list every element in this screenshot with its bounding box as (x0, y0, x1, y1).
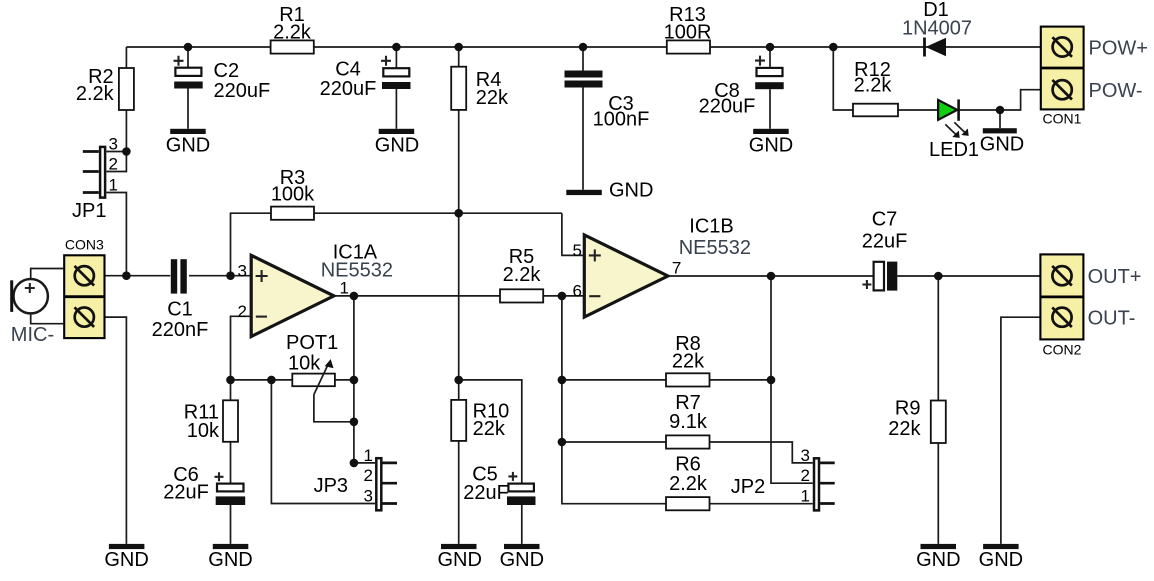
terminal block CON3 (64, 237, 104, 339)
svg-text:C1: C1 (167, 299, 193, 321)
resistor R13 (664, 4, 712, 54)
svg-text:220uF: 220uF (214, 80, 271, 102)
wire R2 top drop (125, 47, 127, 68)
svg-text:2.2k: 2.2k (854, 75, 893, 97)
svg-text:1: 1 (801, 487, 810, 506)
wire R4 column (458, 47, 460, 544)
ground LED1 (980, 128, 1024, 155)
svg-text:22k: 22k (672, 351, 705, 373)
svg-text:3: 3 (801, 446, 810, 465)
svg-text:100nF: 100nF (593, 109, 650, 131)
wire output node down to JP2 pin2 (771, 276, 813, 483)
wire pin6 column to R6 (562, 296, 666, 504)
resistor R10 (451, 400, 509, 441)
wire R9 column (937, 276, 939, 544)
wire output column down to JP3 (353, 296, 355, 463)
svg-text:2: 2 (364, 466, 373, 485)
node R2 JP1 (122, 147, 131, 156)
svg-text:220nF: 220nF (152, 319, 209, 341)
svg-text:7: 7 (672, 259, 681, 278)
svg-text:100R: 100R (664, 22, 712, 44)
svg-text:2: 2 (238, 302, 247, 321)
resistor R1 (271, 4, 314, 54)
svg-text:2.2k: 2.2k (76, 83, 115, 105)
wire R11 column (230, 380, 232, 544)
node mic input (122, 271, 131, 280)
wire POT1 right to output column (335, 379, 354, 381)
capacitor C5 (463, 464, 535, 506)
svg-text:22k: 22k (888, 418, 921, 440)
node rail C8 (766, 43, 775, 52)
resistor R2 (76, 66, 134, 110)
node rail R12 (829, 43, 838, 52)
svg-text:GND: GND (166, 135, 210, 157)
capacitor C1 (152, 259, 209, 341)
header JP2 (731, 446, 835, 511)
node JP3 pin1 (350, 459, 359, 468)
wire R6 to JP2 pin1 (710, 503, 813, 505)
op-amp IC1A (238, 242, 393, 337)
capacitor C3 (565, 71, 650, 131)
wire LED1 to CON1 POW- (959, 90, 1052, 110)
wire R7 row to JP2 pin3 (562, 442, 813, 463)
wire R8 row (562, 379, 771, 381)
node IC1A pin3 (226, 271, 235, 280)
node POT1 right (350, 376, 359, 385)
microphone MIC (11, 279, 54, 346)
header JP1 (72, 135, 118, 223)
svg-text:2.2k: 2.2k (669, 473, 708, 495)
terminal block CON1 (1041, 27, 1148, 127)
svg-text:C7: C7 (872, 209, 898, 231)
node pin2 R11 (226, 376, 235, 385)
svg-text:3: 3 (109, 135, 118, 154)
resistor R11 (184, 400, 238, 442)
wire CON2 OUT- to GND (1001, 317, 1052, 544)
svg-text:GND: GND (609, 180, 653, 202)
wire R12 to LED1 (898, 109, 938, 111)
svg-text:CON1: CON1 (1043, 111, 1082, 127)
svg-text:100k: 100k (271, 184, 315, 206)
svg-text:22uF: 22uF (463, 482, 509, 504)
capacitor C7 (862, 209, 908, 291)
svg-text:R9: R9 (895, 398, 921, 420)
node wiper return (350, 418, 359, 427)
resistor R7 (666, 392, 710, 449)
wire C5 branch (459, 380, 522, 544)
wire pin2 node to POT1 (231, 379, 293, 381)
node LED gnd (996, 106, 1005, 115)
ground C5 (500, 544, 544, 571)
wire C8 stem (769, 47, 771, 129)
node IC1A output (350, 292, 359, 301)
ground R10 (437, 544, 481, 571)
wire R12 branch from rail (833, 47, 853, 110)
wire top supply rail (126, 46, 1051, 48)
svg-text:10k: 10k (288, 353, 321, 375)
wire JP1 pin1 to mic node (106, 193, 126, 276)
svg-text:GND: GND (104, 549, 148, 571)
wire JP1 pin3 (106, 151, 126, 153)
wire CON3 top to C1 (94, 275, 170, 277)
node R8 left (558, 376, 567, 385)
wire R3 bias path (231, 213, 585, 276)
svg-text:NE5532: NE5532 (321, 260, 393, 282)
svg-text:CON3: CON3 (65, 237, 104, 253)
node R3 R4 bias (454, 209, 463, 218)
ground C4 (375, 129, 419, 157)
svg-text:5: 5 (573, 241, 582, 260)
svg-text:JP1: JP1 (72, 200, 106, 222)
svg-text:GND: GND (208, 549, 252, 571)
svg-text:GND: GND (916, 549, 960, 571)
svg-text:CON2: CON2 (1043, 342, 1082, 358)
resistor R8 (666, 333, 710, 387)
resistor R5 (500, 246, 543, 303)
svg-text:22uF: 22uF (163, 482, 209, 504)
svg-text:POW+: POW+ (1089, 38, 1148, 60)
LED LED1 (929, 99, 979, 161)
node R10 C5 (454, 376, 463, 385)
terminal block CON2 (1040, 254, 1141, 357)
node JP3 pin3 branch (267, 376, 276, 385)
wire R2 bottom to JP1 node (125, 110, 127, 152)
resistor R9 (888, 398, 946, 444)
svg-text:1N4007: 1N4007 (902, 18, 972, 40)
wire POT1 wiper return (314, 395, 354, 422)
capacitor C4 (320, 56, 411, 100)
svg-text:JP3: JP3 (314, 475, 348, 497)
svg-text:POW-: POW- (1089, 80, 1143, 102)
svg-text:220uF: 220uF (320, 78, 377, 100)
svg-text:LED1: LED1 (929, 139, 979, 161)
wire IC1A pin2 (231, 316, 252, 380)
ground OUT- (979, 544, 1023, 571)
ground C8 (749, 129, 793, 157)
svg-text:IC1B: IC1B (689, 216, 733, 238)
node C7 R9 (934, 272, 943, 281)
svg-text:22k: 22k (473, 418, 506, 440)
svg-text:3: 3 (364, 487, 373, 506)
svg-text:22uF: 22uF (862, 231, 908, 253)
svg-text:GND: GND (500, 549, 544, 571)
svg-text:OUT+: OUT+ (1088, 266, 1142, 288)
svg-text:10k: 10k (187, 420, 220, 442)
svg-text:C2: C2 (214, 60, 240, 82)
wire mic to CON3 (31, 269, 64, 324)
svg-text:2.2k: 2.2k (273, 22, 312, 44)
resistor R3 (271, 167, 315, 220)
header JP3 (314, 446, 397, 510)
node rail R4 (454, 43, 463, 52)
ground R9 (916, 544, 960, 571)
wire C4 stem (395, 47, 397, 129)
svg-text:2.2k: 2.2k (503, 264, 542, 286)
ground C2 (166, 129, 210, 157)
wire R5 to IC1B pin6 (543, 295, 584, 297)
diode D1 (902, 0, 972, 57)
svg-text:6: 6 (573, 282, 582, 301)
resistor R12 (853, 59, 898, 116)
svg-text:POT1: POT1 (286, 332, 338, 354)
svg-text:2: 2 (801, 466, 810, 485)
node R7 left (558, 438, 567, 447)
svg-text:GND: GND (375, 135, 419, 157)
wire IC1B output to C7 (668, 275, 874, 277)
node rail C4 (392, 43, 401, 52)
svg-text:220uF: 220uF (699, 96, 756, 118)
wire JP3 pin3 loop (271, 380, 375, 504)
svg-text:JP2: JP2 (731, 476, 765, 498)
potentiometer POT1 (286, 332, 338, 395)
capacitor C2 (174, 56, 271, 102)
wire C3 stem (582, 47, 584, 190)
wire C7 to CON2 OUT+ (897, 275, 1051, 277)
resistor R4 (451, 67, 509, 110)
wire LED gnd stub (999, 110, 1001, 128)
wire IC1A output to R5 (334, 295, 500, 297)
ground CON3 (104, 544, 148, 571)
svg-text:GND: GND (749, 135, 793, 157)
wire CON3 bottom to GND (94, 317, 127, 544)
ground C3 (566, 180, 653, 202)
wire C1 to pin3 node (189, 275, 251, 277)
svg-text:1: 1 (364, 446, 373, 465)
resistor R6 (666, 454, 710, 511)
capacitor C8 (699, 56, 784, 118)
node R8 right (767, 376, 776, 385)
svg-text:OUT-: OUT- (1088, 307, 1136, 329)
svg-text:GND: GND (979, 549, 1023, 571)
svg-text:GND: GND (437, 549, 481, 571)
wire JP1 pin2 (106, 152, 126, 172)
svg-text:MIC-: MIC- (11, 324, 54, 346)
svg-text:3: 3 (238, 262, 247, 281)
op-amp IC1B (573, 216, 751, 318)
wire C2 stem (187, 47, 189, 129)
node rail C3 (579, 43, 588, 52)
capacitor C6 (163, 464, 245, 505)
svg-text:GND: GND (980, 134, 1024, 156)
svg-text:NE5532: NE5532 (679, 237, 751, 259)
svg-text:1: 1 (340, 279, 349, 298)
ground C6 (208, 544, 252, 571)
svg-text:22k: 22k (476, 87, 509, 109)
svg-text:9.1k: 9.1k (669, 411, 708, 433)
svg-text:1: 1 (109, 176, 118, 195)
node IC1B output (767, 272, 776, 281)
wire JP3 pin1 (354, 462, 375, 464)
svg-text:2: 2 (109, 155, 118, 174)
node IC1B pin6 (558, 292, 567, 301)
node rail C2 (184, 43, 193, 52)
